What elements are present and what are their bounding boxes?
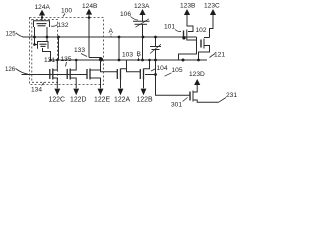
svg-text:122E: 122E (94, 97, 110, 104)
transistor 102 (200, 40, 202, 48)
transistor 101 (183, 31, 185, 40)
leader 134 (42, 83, 45, 86)
svg-text:301: 301 (171, 102, 182, 109)
svg-text:100: 100 (61, 8, 72, 15)
leader 301 (183, 98, 188, 102)
svg-text:123A: 123A (134, 3, 150, 10)
terminal 124B (88, 15, 90, 58)
capacitor 106 (133, 20, 150, 22)
arrow 122D (73, 89, 79, 96)
leader 135 (66, 62, 67, 67)
svg-text:103: 103 (122, 52, 133, 59)
transistor M122A (117, 60, 126, 88)
svg-text:124B: 124B (82, 3, 98, 10)
arrow 122E (98, 89, 104, 96)
leader 133 (81, 54, 87, 57)
transistor M122E (87, 60, 101, 88)
terminal 124A (41, 15, 43, 20)
dashed box 125/126 inner (32, 20, 58, 83)
terminal 123C (210, 15, 214, 38)
leader 125 (16, 33, 23, 37)
svg-text:106: 106 (120, 11, 131, 18)
svg-text:101: 101 (164, 24, 175, 31)
svg-text:123C: 123C (204, 3, 220, 10)
svg-text:132: 132 (58, 22, 69, 29)
transistor 132 (34, 21, 50, 27)
junction dots on rail A (nodes of 132/131) (33, 36, 36, 39)
svg-text:122A: 122A (114, 97, 130, 104)
transistor 301 (189, 92, 191, 101)
leader 104 (151, 69, 156, 72)
svg-text:122D: 122D (70, 97, 86, 104)
svg-text:125: 125 (6, 30, 17, 37)
svg-text:A: A (109, 28, 114, 35)
wire gate chain right (101, 60, 118, 72)
svg-text:122C: 122C (49, 97, 65, 104)
capacitor 105 (155, 37, 157, 47)
svg-text:124A: 124A (35, 4, 51, 11)
svg-text:134: 134 (31, 87, 42, 94)
wire gate bus 134 (22, 74, 88, 76)
terminal 123B (187, 15, 193, 32)
svg-text:104: 104 (157, 65, 168, 72)
leader 121 (210, 54, 216, 58)
wire 123A to rail B (142, 24, 144, 60)
wire 124B elbow to rail B (89, 58, 101, 61)
dashed box 100 (30, 18, 104, 85)
wire V1 (rail A to rail B riser) (58, 37, 60, 60)
svg-text:122B: 122B (137, 97, 153, 104)
transistor 131 (35, 37, 38, 45)
arrow 122A (118, 89, 124, 96)
transistor M122D (67, 59, 77, 89)
svg-text:131: 131 (44, 57, 55, 64)
arrow 122C (54, 89, 60, 96)
transistor M122C (50, 59, 59, 89)
leader 105 (165, 73, 172, 76)
wire 131 source (43, 48, 51, 60)
wire 103 (node A to node B) (118, 37, 120, 60)
node A marker (110, 34, 112, 37)
node B marker (138, 56, 140, 60)
leader 101 (175, 30, 181, 32)
arrow 122B (141, 89, 147, 96)
leader 106 (131, 17, 139, 21)
label 132 leader (51, 25, 58, 27)
svg-text:135: 135 (61, 56, 72, 63)
leader 100 (63, 14, 65, 17)
svg-text:123D: 123D (189, 71, 205, 78)
leader 126 (16, 69, 29, 75)
terminal 123A (142, 15, 144, 21)
svg-text:121: 121 (214, 52, 225, 59)
svg-text:126: 126 (5, 66, 16, 73)
wire cap to rail B and down (156, 50, 191, 96)
svg-text:133: 133 (74, 47, 85, 54)
terminal 123D (196, 85, 198, 87)
svg-text:123B: 123B (180, 3, 196, 10)
wire rail B (51, 59, 208, 61)
svg-text:B: B (137, 51, 142, 58)
leader 231 (219, 98, 227, 103)
transistor M122B (140, 59, 151, 89)
wire rail A (23, 36, 197, 38)
svg-text:105: 105 (172, 67, 183, 74)
svg-text:231: 231 (226, 92, 237, 99)
svg-text:102: 102 (196, 27, 207, 34)
